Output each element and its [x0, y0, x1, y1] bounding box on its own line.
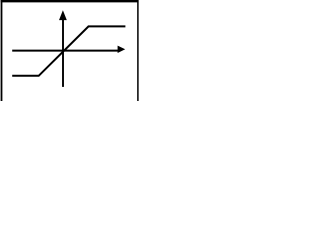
- node y-axis arrowhead: [59, 10, 67, 20]
- wire border right: [137, 0, 139, 101]
- node x-axis arrowhead: [118, 46, 126, 53]
- node x-axis shaft: [12, 50, 119, 52]
- node y-axis shaft: [62, 16, 64, 87]
- wire border top: [1, 0, 139, 2]
- wire border left: [1, 0, 3, 101]
- wire saturation curve: [12, 26, 125, 75]
